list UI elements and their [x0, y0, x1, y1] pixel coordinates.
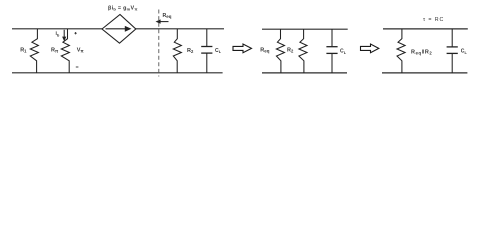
- wire top rail left circuit: [12, 28, 224, 30]
- svg-text:R2: R2: [187, 48, 194, 54]
- current ib arrow: [62, 30, 66, 41]
- resistor Rpi: [61, 29, 69, 73]
- svg-text:Req‖R2: Req‖R2: [411, 49, 432, 55]
- plus polarity vpi: [74, 32, 76, 34]
- capacitor CL left: [201, 29, 212, 73]
- resistor Req middle: [276, 29, 284, 73]
- svg-text:R2: R2: [287, 47, 294, 53]
- dashed cut line: [158, 10, 160, 77]
- dependent source U1 diamond: [102, 15, 136, 44]
- svg-text:CL: CL: [340, 49, 347, 55]
- svg-text:Vπ: Vπ: [77, 48, 85, 54]
- resistor R1: [30, 29, 38, 73]
- implies arrow 1: [233, 44, 252, 53]
- svg-text:τ = RC: τ = RC: [423, 17, 444, 23]
- resistor R2 middle: [299, 29, 307, 73]
- capacitor CL right: [447, 29, 458, 73]
- svg-text:CL: CL: [215, 48, 222, 54]
- resistor R2 left: [173, 29, 181, 73]
- wire bottom rail left circuit: [12, 72, 223, 74]
- Req arrow pointing left: [156, 19, 169, 23]
- wire bottom rail right circuit: [382, 72, 467, 74]
- implies arrow 2: [361, 44, 379, 53]
- capacitor CL middle: [326, 29, 337, 73]
- resistor Req parallel R2: [397, 29, 405, 73]
- svg-text:ib: ib: [56, 31, 60, 37]
- dependent source arrow: [106, 26, 132, 32]
- wire bottom rail middle circuit: [262, 72, 347, 74]
- svg-text:Req: Req: [163, 13, 172, 19]
- svg-text:R1: R1: [20, 47, 27, 53]
- wire top rail middle circuit: [262, 28, 348, 30]
- svg-text:βib = gmVπ: βib = gmVπ: [108, 6, 138, 12]
- svg-text:Req: Req: [260, 47, 269, 53]
- minus polarity vpi: [76, 66, 79, 68]
- svg-text:CL: CL: [461, 49, 468, 55]
- svg-text:Rπ: Rπ: [51, 48, 59, 54]
- wire top rail right circuit: [383, 28, 468, 30]
